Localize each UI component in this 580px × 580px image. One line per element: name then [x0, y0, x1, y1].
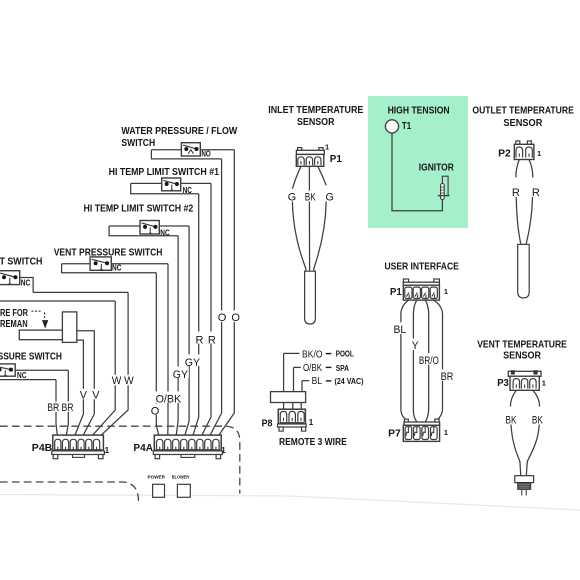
svg-text:RE FOR: RE FOR — [0, 308, 28, 319]
switch hi temp limit 1 NC — [162, 178, 181, 191]
label BK vent — [505, 414, 518, 425]
svg-text:REMAN: REMAN — [0, 319, 28, 330]
transformer T1 terminal — [385, 120, 398, 133]
outlet sensor probe — [518, 244, 530, 298]
wire V to P4B pin4 — [77, 331, 95, 440]
svg-text:1: 1 — [542, 379, 546, 388]
svg-text:HI TEMP LIMIT SWITCH #1: HI TEMP LIMIT SWITCH #1 — [109, 167, 220, 178]
svg-text:P1: P1 — [330, 154, 342, 165]
label GY — [172, 367, 189, 379]
svg-text:REMOTE 3 WIRE: REMOTE 3 WIRE — [279, 437, 347, 448]
svg-text:BLOWER: BLOWER — [172, 474, 190, 479]
svg-text:HIGH TENSION: HIGH TENSION — [388, 106, 450, 117]
wire O to P4A pin7 — [208, 159, 222, 440]
wire from T switch to node A — [20, 278, 33, 293]
remote strain relief block — [271, 392, 306, 403]
label BK — [304, 191, 317, 202]
svg-text:SENSOR: SENSOR — [503, 351, 541, 362]
svg-text:BK: BK — [305, 192, 316, 204]
svg-text:P4A: P4A — [133, 443, 153, 454]
wire water pressure switch rails — [151, 149, 234, 151]
switch vent pressure NC — [90, 257, 111, 270]
wire BL — [401, 300, 409, 422]
svg-text:SWITCH: SWITCH — [121, 138, 155, 149]
svg-text:P8: P8 — [262, 419, 273, 430]
svg-text:ET SWITCH: ET SWITCH — [0, 257, 43, 268]
connector P7 — [403, 419, 439, 441]
wire BR/O — [425, 300, 429, 422]
svg-text:O/BK: O/BK — [303, 363, 322, 374]
switch pressure cut off NC — [0, 364, 15, 376]
svg-text:O: O — [231, 312, 240, 324]
svg-text:P4B: P4B — [32, 443, 53, 454]
wire BR to P4B pin1 — [56, 380, 58, 440]
svg-text:HI TEMP LIMIT SWITCH #2: HI TEMP LIMIT SWITCH #2 — [84, 204, 194, 215]
sensor well bar — [19, 330, 63, 340]
vent probe fitting — [515, 476, 534, 483]
wire O/BK remote — [294, 366, 301, 368]
label V — [79, 389, 88, 400]
label G — [287, 191, 297, 202]
svg-text:P7: P7 — [388, 428, 401, 439]
svg-text:NC: NC — [21, 279, 31, 288]
svg-text:R: R — [512, 187, 520, 199]
svg-text:GY: GY — [173, 369, 189, 381]
svg-text:NO: NO — [201, 149, 210, 158]
svg-text:BL: BL — [312, 376, 323, 387]
switch hi temp limit 2 NC — [140, 221, 159, 235]
switch water pressure flow NO — [181, 143, 200, 156]
ignitor symbol — [438, 176, 450, 199]
label O wire8 — [230, 310, 240, 322]
svg-text:O: O — [151, 405, 160, 417]
svg-text:O: O — [218, 312, 227, 324]
label R 2 — [207, 332, 217, 344]
svg-text:BK: BK — [506, 414, 517, 426]
connector P1 inlet — [296, 148, 324, 167]
svg-text:SENSOR: SENSOR — [297, 117, 335, 128]
svg-text:(24 VAC): (24 VAC) — [335, 377, 364, 386]
wire hi temp limit switch 2 rails — [109, 225, 189, 227]
svg-text:W: W — [112, 375, 122, 387]
svg-text:1: 1 — [105, 446, 110, 455]
wire outlet R left — [516, 160, 519, 178]
connector P4B — [52, 435, 105, 459]
wire O to P4A pin8 — [216, 150, 234, 440]
svg-text:OUTLET TEMPERATURE: OUTLET TEMPERATURE — [472, 106, 574, 117]
svg-text:NC: NC — [17, 371, 27, 380]
wire GY to P4A pin3 — [176, 236, 178, 440]
wire vent BK left — [510, 390, 516, 406]
svg-text:P2: P2 — [498, 148, 511, 159]
svg-text:NC: NC — [183, 186, 193, 195]
board outline dashed bottom — [0, 482, 139, 502]
wire GY to P4A pin4 — [184, 226, 189, 439]
svg-text:VENT PRESSURE SWITCH: VENT PRESSURE SWITCH — [54, 248, 163, 259]
connector P4A — [153, 435, 222, 459]
wire R to P4A pin6 — [200, 183, 211, 439]
svg-text:V: V — [80, 389, 88, 401]
wire Y — [413, 300, 416, 422]
svg-text:BR/O: BR/O — [419, 355, 439, 367]
connector P1 user interface — [403, 279, 439, 300]
vent probe leads — [521, 490, 523, 496]
wire outlet R right — [529, 160, 533, 178]
label O — [150, 404, 160, 415]
svg-text:R: R — [532, 187, 540, 199]
svg-text:1: 1 — [325, 143, 329, 152]
svg-text:GY: GY — [185, 357, 201, 369]
label R outlet — [511, 187, 521, 198]
svg-text:POOL: POOL — [336, 349, 354, 358]
wire inlet G right — [318, 166, 326, 185]
wire vent pressure switch rails — [62, 263, 168, 265]
wire W to P4B pin6 — [97, 292, 129, 439]
wire BR user interface — [434, 300, 443, 422]
svg-text:T1: T1 — [402, 121, 412, 132]
svg-text:Y: Y — [412, 340, 419, 352]
label G 2 — [325, 191, 335, 202]
svg-text:P3: P3 — [497, 378, 509, 389]
wire O to P4A pin1 — [156, 273, 159, 440]
label R outlet 2 — [531, 187, 541, 198]
connector P2 — [514, 141, 534, 160]
svg-text:BL: BL — [394, 324, 407, 336]
svg-text:IGNITOR: IGNITOR — [419, 163, 454, 174]
wire V to P4B pin3 — [73, 340, 83, 439]
svg-text:1: 1 — [309, 418, 314, 427]
svg-text:WATER PRESSURE / FLOW: WATER PRESSURE / FLOW — [121, 126, 237, 137]
label O/BK — [155, 391, 182, 402]
wire line B from left edge — [0, 300, 115, 302]
wire vent BK right — [533, 390, 540, 406]
wire BL remote — [302, 380, 309, 382]
svg-text:G: G — [326, 192, 334, 204]
svg-text:POWER: POWER — [148, 474, 166, 479]
svg-text:INLET TEMPERATURE: INLET TEMPERATURE — [268, 105, 363, 116]
svg-text:P1: P1 — [390, 287, 402, 298]
blower jumper square — [177, 484, 190, 497]
wire BR to P4B pin2 — [66, 370, 69, 439]
label R — [195, 332, 205, 344]
arrow wire for fireman — [31, 310, 41, 312]
inlet sensor probe — [305, 271, 316, 324]
svg-text:BR: BR — [62, 402, 74, 414]
svg-text:V: V — [92, 389, 100, 401]
wire W to P4B pin5 — [89, 301, 115, 439]
label O wire7 — [217, 310, 227, 322]
svg-text:G: G — [288, 192, 296, 204]
svg-text:BK/O: BK/O — [302, 350, 323, 361]
svg-text:BR: BR — [441, 371, 454, 383]
svg-text:O/BK: O/BK — [156, 393, 182, 405]
sensor well block — [62, 312, 76, 343]
label GY 2 — [184, 355, 200, 367]
wire pressure switch bottom rail — [0, 379, 56, 381]
label BR user interface — [440, 369, 455, 381]
wire line A to W wire — [33, 291, 128, 293]
label W — [111, 375, 122, 386]
wire BK/O remote — [284, 352, 300, 354]
svg-text:VENT TEMPERATURE: VENT TEMPERATURE — [477, 340, 567, 351]
label W 2 — [123, 375, 134, 386]
connector P8 — [278, 409, 307, 431]
svg-text:SPA: SPA — [336, 364, 349, 373]
label V 2 — [91, 389, 100, 400]
wire inlet G left — [292, 166, 301, 189]
wires block to P8 — [283, 403, 285, 410]
svg-text:R: R — [196, 335, 204, 347]
wire inlet BK — [308, 166, 310, 191]
svg-text:BR: BR — [47, 402, 59, 414]
label Y — [411, 339, 419, 351]
wire T1 to ignitor — [392, 133, 442, 211]
board outline dashed — [0, 426, 240, 493]
svg-text:NC: NC — [160, 229, 170, 238]
wire R to P4A pin5 — [192, 194, 199, 440]
svg-text:1: 1 — [221, 446, 226, 455]
wire O/BK to P4A pin2 — [167, 264, 169, 440]
scan page edge (faint) — [0, 495, 580, 511]
high-tension highlight box — [368, 96, 468, 228]
wire pressure switch top rail — [15, 369, 68, 371]
svg-text:1: 1 — [537, 149, 541, 158]
svg-text:1: 1 — [444, 287, 448, 296]
svg-text:NC: NC — [112, 263, 122, 272]
svg-text:SENSOR: SENSOR — [503, 118, 542, 129]
label BK vent 2 — [531, 414, 544, 425]
label BR/O — [418, 353, 440, 365]
label BR 2 — [61, 402, 75, 413]
svg-text:BK: BK — [532, 414, 543, 426]
svg-text:R: R — [208, 335, 216, 347]
svg-text:ESSURE SWITCH: ESSURE SWITCH — [0, 351, 62, 362]
switch T cut off NC — [0, 271, 20, 285]
connector P3 — [508, 370, 541, 390]
svg-text:W: W — [124, 375, 134, 387]
power jumper square — [153, 484, 165, 497]
label BR — [47, 402, 61, 413]
wire hi temp limit switch 1 rails — [131, 182, 211, 184]
svg-text:1: 1 — [444, 428, 448, 437]
svg-text:USER INTERFACE: USER INTERFACE — [385, 262, 460, 273]
label BL — [393, 322, 408, 334]
